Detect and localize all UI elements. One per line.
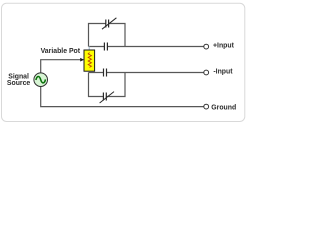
- svg-text:-Input: -Input: [213, 69, 233, 76]
- svg-text:Source: Source: [7, 80, 31, 87]
- svg-text:Variable Pot: Variable Pot: [41, 48, 81, 55]
- svg-text:+Input: +Input: [213, 43, 235, 50]
- svg-text:Ground: Ground: [211, 105, 236, 112]
